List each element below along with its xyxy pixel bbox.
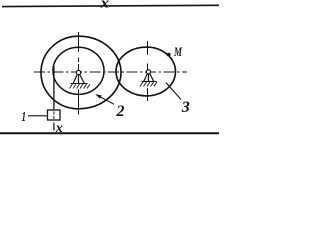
x axis tick below weight <box>53 123 55 131</box>
pulley 2 outer rim <box>41 36 121 109</box>
pulley 2 vertical centerline <box>78 32 80 115</box>
leader 1 <box>28 115 48 117</box>
wheel 3 vertical centerline <box>147 41 149 101</box>
horizontal centerline <box>34 71 187 73</box>
svg-text:2: 2 <box>116 103 125 120</box>
weight 1 centerline <box>53 112 55 120</box>
leader 2 <box>97 95 114 104</box>
cord <box>53 67 55 111</box>
pin support O2 <box>70 70 91 88</box>
wheel 3 rim <box>116 47 176 96</box>
svg-text:3: 3 <box>181 99 190 116</box>
pulley 2 inner rim <box>53 47 104 94</box>
pin support O3 <box>140 70 157 87</box>
point M <box>167 53 171 57</box>
leader 2 arrowhead <box>95 94 101 99</box>
weight 1 <box>48 110 61 120</box>
svg-text:1: 1 <box>22 110 27 125</box>
ceiling line <box>2 5 219 6</box>
svg-text:x: x <box>99 0 109 12</box>
leader 3 <box>166 83 181 100</box>
svg-text:M: M <box>173 45 182 59</box>
ground line <box>0 132 219 134</box>
svg-text:x: x <box>55 121 63 136</box>
